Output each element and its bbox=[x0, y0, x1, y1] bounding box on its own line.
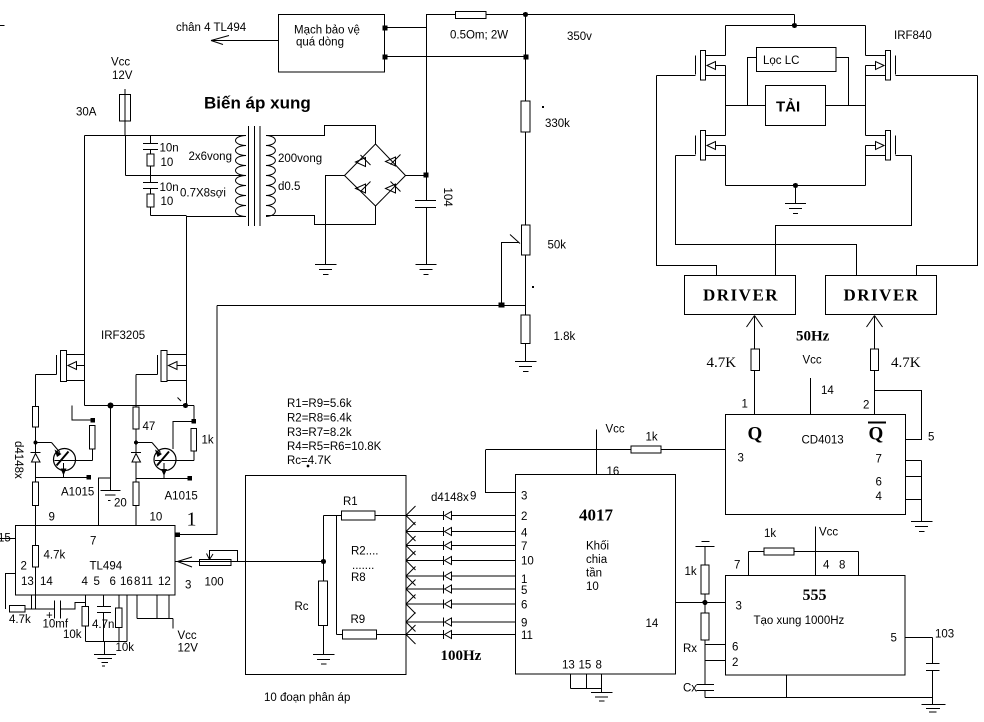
wire H-bridge top rail bbox=[726, 25, 866, 27]
resistor collector left bbox=[92, 449, 94, 461]
wire 555 bottom rail bbox=[705, 697, 933, 699]
wire down to 4017 pin3 bbox=[486, 450, 516, 493]
wire secondary bottom to bridge bbox=[266, 206, 376, 225]
wire bridge positive output bbox=[406, 175, 427, 177]
svg-text:50Hz: 50Hz bbox=[796, 329, 830, 345]
svg-text:15: 15 bbox=[579, 660, 592, 672]
transformer primary winding bbox=[236, 136, 247, 217]
svg-text:10n: 10n bbox=[160, 182, 179, 194]
wire TAI right lead bbox=[826, 105, 866, 107]
wire R1 left to bus bbox=[324, 515, 342, 517]
ground 4017 bbox=[591, 692, 613, 694]
svg-text:1: 1 bbox=[742, 399, 748, 411]
wire 10mf to pin4 node bbox=[61, 603, 86, 610]
svg-text:.......: ....... bbox=[352, 560, 374, 572]
svg-text:100: 100 bbox=[205, 577, 224, 589]
svg-text:TẢI: TẢI bbox=[776, 99, 800, 116]
svg-text:Vcc: Vcc bbox=[606, 424, 625, 436]
wire vertical from rail down to bridge + output bbox=[426, 15, 428, 176]
svg-text:6: 6 bbox=[876, 477, 882, 489]
wire TAI left lead bbox=[726, 105, 766, 107]
wire gate Q3 to right DRIVER bbox=[917, 76, 978, 276]
resistor 1k (clock link) bbox=[631, 446, 661, 453]
svg-text:1k: 1k bbox=[764, 528, 776, 540]
potentiometer 100 bbox=[200, 560, 232, 566]
stray dot near transformer bbox=[307, 465, 310, 468]
wire inner bus R1 to R9 bbox=[336, 516, 338, 635]
svg-text:4: 4 bbox=[823, 560, 830, 572]
resistor 4.7K left bbox=[751, 349, 760, 371]
svg-text:TL494: TL494 bbox=[90, 561, 123, 573]
svg-text:Tạo xung 1000Hz: Tạo xung 1000Hz bbox=[754, 615, 845, 627]
capacitor Cx bbox=[697, 684, 715, 686]
IC CD4013 bbox=[726, 415, 906, 515]
svg-text:R9: R9 bbox=[351, 614, 366, 626]
capacitor 103 bbox=[932, 638, 934, 664]
wire to TL494 pin9 bbox=[35, 506, 37, 526]
capacitor 10mf bbox=[54, 601, 56, 619]
diode d4148 right bbox=[131, 452, 141, 454]
box 10 doan phan ap bbox=[246, 476, 407, 675]
wire to TL494 pin10 bbox=[135, 506, 137, 526]
svg-text:Rc: Rc bbox=[295, 601, 309, 613]
svg-text:0.5Om; 2W: 0.5Om; 2W bbox=[450, 30, 508, 42]
resistor (left lower) bbox=[33, 482, 39, 506]
gate resistor chain left : wire bbox=[35, 375, 37, 407]
arrow into TL494 pin3 bbox=[178, 557, 193, 567]
wire pin13 stub bbox=[31, 595, 33, 609]
wire collector resistor to rail bbox=[72, 406, 91, 421]
IC 555 bbox=[726, 576, 906, 676]
svg-text:1k: 1k bbox=[202, 435, 214, 447]
wire pin5 stub bbox=[103, 595, 105, 607]
svg-text:2: 2 bbox=[21, 561, 27, 573]
svg-text:1k: 1k bbox=[685, 566, 697, 578]
svg-text:10k: 10k bbox=[116, 642, 135, 654]
ground Rc bbox=[313, 654, 335, 656]
svg-text:d4148x: d4148x bbox=[12, 441, 24, 479]
gate resistor chain right : wire bbox=[135, 375, 137, 408]
wire bridge negative to ground bbox=[326, 176, 345, 265]
wire rail to 1k top bbox=[193, 406, 195, 420]
stray dot bbox=[542, 106, 544, 108]
wire Rx to pin6/2 and Cx bbox=[704, 640, 706, 684]
diode d4148 row 6 (to 4017 pin 5) bbox=[406, 580, 516, 599]
diode D2 (top-right arm) bbox=[386, 157, 396, 166]
svg-text:0.7X8sợi: 0.7X8sợi bbox=[180, 188, 226, 200]
svg-text:Q: Q bbox=[748, 424, 763, 445]
resistor 10k (pin6) bbox=[116, 608, 123, 628]
svg-text:2: 2 bbox=[863, 400, 869, 412]
svg-text:6: 6 bbox=[110, 576, 116, 588]
svg-text:7: 7 bbox=[734, 560, 740, 572]
transistor A1015 right bbox=[136, 443, 194, 479]
svg-text:R2=R8=6.4k: R2=R8=6.4k bbox=[287, 413, 352, 425]
svg-text:2: 2 bbox=[732, 657, 738, 669]
wire bottom rail to ground bbox=[795, 186, 797, 204]
svg-text:8: 8 bbox=[596, 660, 602, 672]
svg-text:16: 16 bbox=[120, 576, 133, 588]
resistor 10 (upper snubber) bbox=[147, 154, 154, 166]
svg-text:Cx: Cx bbox=[683, 683, 697, 695]
IC 4017 bbox=[516, 475, 676, 675]
wire emitter bottom left bbox=[36, 477, 90, 479]
box TẢI bbox=[766, 86, 826, 126]
svg-text:10k: 10k bbox=[63, 629, 82, 641]
svg-text:10n: 10n bbox=[160, 143, 179, 155]
IC TL494 bbox=[16, 526, 176, 596]
svg-text:10: 10 bbox=[161, 157, 174, 169]
svg-text:1: 1 bbox=[187, 509, 197, 531]
svg-text:1k: 1k bbox=[646, 432, 658, 444]
mosfet Q3 IRF840 top-right bbox=[866, 26, 978, 81]
wire box output top to 350v rail bbox=[385, 27, 427, 29]
resistor 10 (lower snubber) bbox=[147, 194, 154, 207]
diode d4148 row 8 (to 4017 pin 9) bbox=[406, 613, 516, 632]
capacitor 10n (upper snubber) bbox=[150, 136, 152, 144]
svg-text:4017: 4017 bbox=[579, 506, 614, 525]
svg-text:5: 5 bbox=[521, 585, 527, 597]
svg-text:12: 12 bbox=[158, 576, 171, 588]
svg-text:4.7K: 4.7K bbox=[891, 355, 921, 371]
svg-text:104: 104 bbox=[441, 188, 453, 208]
wire left phase rail bbox=[725, 66, 727, 136]
svg-text:chia: chia bbox=[586, 554, 608, 566]
svg-text:quá dòng: quá dòng bbox=[296, 37, 344, 49]
resistor 1k collector right bbox=[193, 451, 195, 461]
svg-text:Lọc LC: Lọc LC bbox=[763, 55, 799, 67]
svg-text:Biến áp xung: Biến áp xung bbox=[204, 94, 311, 113]
wire R9 left bbox=[337, 634, 343, 636]
wire secondary top to bridge bbox=[266, 126, 376, 145]
svg-text:R1=R9=5.6k: R1=R9=5.6k bbox=[287, 398, 352, 410]
svg-text:4.7k: 4.7k bbox=[44, 550, 66, 562]
ground H-bridge bbox=[785, 203, 806, 205]
svg-text:13: 13 bbox=[562, 660, 575, 672]
wire Rc to ground bbox=[323, 626, 325, 655]
wire node to 555 pin3 bbox=[705, 602, 726, 604]
svg-text:IRF3205: IRF3205 bbox=[101, 330, 145, 342]
svg-text:Q: Q bbox=[869, 424, 884, 445]
svg-text:d4148x: d4148x bbox=[431, 492, 469, 504]
wire top rail left segment bbox=[426, 14, 455, 16]
wire CD4013 pin14 bbox=[810, 378, 812, 415]
wire 103 to ground bbox=[932, 671, 934, 705]
resistor 4.7k (bottom left) bbox=[10, 606, 26, 613]
stray tick top-left bbox=[0, 25, 5, 27]
svg-text:Vcc: Vcc bbox=[178, 630, 197, 642]
transformer secondary winding bbox=[266, 136, 275, 217]
ground 555/103 bbox=[922, 704, 946, 706]
svg-text:R4=R5=R6=10.8K: R4=R5=R6=10.8K bbox=[287, 441, 382, 453]
transistor A1015 left bbox=[36, 443, 93, 478]
wire pin4 stub bbox=[85, 595, 87, 607]
wire gate Q1 to left DRIVER bbox=[657, 76, 717, 276]
wire pin2 loop bbox=[6, 574, 16, 610]
wire Loc LC right lead bbox=[836, 58, 849, 106]
svg-text:103: 103 bbox=[935, 629, 954, 641]
wire 4.7K left to CD4013 pin1 bbox=[754, 371, 756, 415]
capacitor 10n (lower snubber) bbox=[150, 176, 152, 183]
svg-text:14: 14 bbox=[646, 618, 659, 630]
svg-text:3: 3 bbox=[185, 580, 191, 592]
mosfet Q5 IRF3205 left bbox=[36, 351, 85, 382]
svg-text:DRIVER: DRIVER bbox=[703, 286, 779, 305]
wire pin6 stub bbox=[118, 595, 120, 608]
wire CD4013 pin3 with 1k to 4017 pin3 bbox=[661, 449, 726, 451]
svg-text:R3=R7=8.2k: R3=R7=8.2k bbox=[287, 427, 352, 439]
wire 1k top to collector branch bbox=[173, 422, 192, 450]
diode d4148 left bbox=[31, 452, 41, 454]
svg-text:2x6vong: 2x6vong bbox=[189, 151, 232, 163]
svg-text:5: 5 bbox=[94, 576, 100, 588]
svg-text:12V: 12V bbox=[112, 70, 133, 82]
wire right phase rail bbox=[865, 66, 867, 136]
wire 1k to node bbox=[704, 594, 706, 613]
wire Loc LC left lead bbox=[748, 58, 757, 106]
stray dot bbox=[532, 286, 534, 288]
resistor 1k (to rail) bbox=[701, 565, 709, 594]
svg-text:A1015: A1015 bbox=[61, 487, 94, 499]
feedback wire to TL494 pin1 node bbox=[217, 305, 526, 307]
svg-text:10 đoạn phân áp: 10 đoạn phân áp bbox=[264, 692, 350, 704]
svg-text:tần: tần bbox=[586, 568, 602, 580]
svg-text:d0.5: d0.5 bbox=[278, 181, 300, 193]
resistor R9 bbox=[343, 630, 377, 639]
stray tick bbox=[178, 398, 182, 402]
junction dot bridge output bbox=[424, 173, 429, 178]
resistor 1k (555 charge) bbox=[749, 551, 765, 553]
wire primary centre tap bbox=[125, 136, 127, 176]
svg-text:10: 10 bbox=[161, 196, 174, 208]
resistor 10k (pin4) bbox=[82, 607, 89, 627]
rail symbol above 1k bbox=[696, 546, 715, 548]
svg-text:10: 10 bbox=[150, 512, 163, 524]
junction dot on rail bbox=[523, 12, 528, 17]
svg-text:100Hz: 100Hz bbox=[441, 648, 482, 664]
svg-text:7: 7 bbox=[876, 454, 882, 466]
wire 350v divider vertical upper bbox=[525, 15, 527, 102]
mosfet Q4 IRF840 bottom-right bbox=[866, 131, 912, 161]
ground 20 bbox=[101, 490, 121, 492]
wire top rail right segment to H-bridge bbox=[486, 14, 795, 16]
svg-text:11: 11 bbox=[521, 630, 533, 642]
diode d4148 row 3 (to 4017 pin 7) bbox=[406, 536, 516, 555]
wire primary bottom bbox=[151, 215, 187, 217]
svg-text:14: 14 bbox=[40, 576, 53, 588]
wire rail to signal ground bbox=[110, 406, 112, 491]
arrow into right DRIVER bbox=[867, 316, 883, 328]
svg-text:10: 10 bbox=[521, 556, 534, 568]
wire pins 8 11 12 to Vcc bbox=[136, 595, 138, 619]
ground under 1.8k bbox=[515, 361, 537, 363]
svg-text:DRIVER: DRIVER bbox=[844, 286, 920, 305]
svg-text:11: 11 bbox=[141, 576, 153, 588]
box DRIVER left bbox=[685, 276, 796, 315]
junction dot 4017 pin14 node bbox=[702, 600, 707, 605]
wire 4017 bottom pins to ground bbox=[570, 674, 572, 689]
svg-text:9: 9 bbox=[470, 491, 476, 503]
svg-text:R1: R1 bbox=[343, 496, 358, 508]
pot 100 wiper arm bbox=[210, 551, 238, 562]
wire box output bottom to divider rail bbox=[385, 56, 527, 58]
box Lọc LC bbox=[757, 48, 837, 72]
wire pins 7-6-4 chain to ground bbox=[921, 461, 923, 522]
wire primary top down to left IRF3205 drain bbox=[84, 136, 86, 406]
wire TL494 pin7 to ground rail bbox=[99, 478, 111, 526]
wire 4017 pin14 output bbox=[676, 602, 706, 604]
wire pin1 stub to feedback bbox=[176, 533, 181, 538]
svg-text:4: 4 bbox=[876, 491, 883, 503]
wire H-bridge bottom rail bbox=[726, 185, 866, 187]
ground under 104 bbox=[416, 264, 437, 266]
svg-text:4: 4 bbox=[82, 576, 89, 588]
svg-text:chân 4 TL494: chân 4 TL494 bbox=[176, 22, 247, 34]
resistor (left gate) bbox=[33, 407, 39, 428]
capacitor 4.7n bbox=[97, 606, 111, 608]
svg-text:20: 20 bbox=[114, 498, 127, 510]
wire right low-side source to bottom rail bbox=[865, 146, 867, 186]
wire 4.7K right to CD4013 pin2 bbox=[874, 371, 876, 415]
pin 6 stub bbox=[906, 476, 922, 478]
wire divider left bus (to Rc) bbox=[323, 516, 325, 582]
resistor 4.7k (inside, pin9 chain) bbox=[35, 526, 37, 546]
svg-text:30A: 30A bbox=[76, 107, 97, 119]
box DRIVER right bbox=[826, 276, 937, 315]
wire 555 ground stub bbox=[786, 675, 788, 698]
svg-text:47: 47 bbox=[143, 421, 156, 433]
resistor 330k bbox=[521, 101, 530, 132]
svg-text:Vcc: Vcc bbox=[819, 527, 838, 539]
svg-text:50k: 50k bbox=[548, 240, 567, 252]
svg-text:10: 10 bbox=[586, 581, 599, 593]
wire gate Q2 to right DRIVER bbox=[676, 156, 857, 276]
wire source rail bbox=[85, 405, 195, 407]
svg-text:1.8k: 1.8k bbox=[554, 331, 576, 343]
svg-text:6: 6 bbox=[732, 642, 738, 654]
resistor 0.5Om 2W bbox=[456, 12, 487, 19]
transformer core bbox=[248, 126, 250, 226]
wiper arrow of 50k bbox=[501, 235, 520, 244]
arrow into left DRIVER bbox=[747, 316, 763, 328]
wire left low-side source to bottom rail bbox=[725, 146, 727, 186]
svg-text:8: 8 bbox=[134, 576, 140, 588]
diode D1 (top-left arm) bbox=[356, 158, 366, 167]
svg-text:Vcc: Vcc bbox=[111, 57, 130, 69]
svg-text:3: 3 bbox=[521, 491, 527, 503]
wire emitter bottom right bbox=[136, 478, 190, 480]
svg-text:9: 9 bbox=[49, 512, 55, 524]
wire arrow to chân 4 TL494 bbox=[211, 36, 278, 45]
resistor Rc bbox=[319, 581, 328, 626]
wire 330k to 50k bbox=[525, 132, 527, 225]
ground CD4013 bbox=[911, 521, 933, 523]
node dot right bbox=[134, 441, 138, 445]
svg-text:5: 5 bbox=[928, 432, 934, 444]
svg-text:R8: R8 bbox=[351, 572, 366, 584]
svg-text:330k: 330k bbox=[545, 118, 570, 130]
pin 7 stub bbox=[906, 460, 922, 462]
svg-text:IRF840: IRF840 bbox=[894, 30, 932, 42]
svg-text:6: 6 bbox=[521, 600, 527, 612]
diode d4148 row 7 (to 4017 pin 6) bbox=[406, 595, 516, 614]
wire pin2 to pin5 link bbox=[875, 391, 922, 440]
box Mạch bảo vệ quá dòng bbox=[279, 15, 385, 73]
potentiometer 50k bbox=[522, 225, 531, 255]
resistor (right lower) bbox=[133, 482, 139, 506]
svg-text:3: 3 bbox=[738, 453, 744, 465]
svg-text:A1015: A1015 bbox=[165, 491, 198, 503]
wire 50k to 1.8k bbox=[525, 255, 527, 315]
wire wiper down to feedback line bbox=[501, 243, 503, 306]
wire pin16 stub bbox=[126, 595, 128, 642]
svg-text:7: 7 bbox=[90, 536, 96, 548]
svg-text:5: 5 bbox=[891, 633, 897, 645]
wire primary bottom down to right IRF3205 drain bbox=[186, 216, 188, 406]
wire ground bus bbox=[86, 641, 128, 643]
svg-text:8: 8 bbox=[839, 560, 845, 572]
ground bridge negative bbox=[315, 264, 337, 266]
resistor 1.8k bbox=[521, 315, 530, 344]
svg-text:7: 7 bbox=[521, 541, 527, 553]
svg-text:16: 16 bbox=[607, 466, 620, 478]
wire to 10mf bbox=[25, 608, 55, 610]
wire 555 pin2 stub bbox=[705, 660, 726, 662]
svg-text:Rx: Rx bbox=[683, 643, 697, 655]
svg-text:3: 3 bbox=[736, 601, 742, 613]
mosfet Q1 IRF840 top-left bbox=[657, 26, 726, 81]
bridge rectifier diamond bbox=[345, 144, 406, 206]
svg-text:9: 9 bbox=[521, 618, 527, 630]
diode D4 (bottom-right arm) bbox=[386, 184, 396, 193]
resistor Rx bbox=[701, 613, 709, 640]
diode D3 (bottom-left arm) bbox=[356, 184, 366, 193]
diode d4148 row 1 (to 4017 pin 2) bbox=[376, 506, 516, 525]
wire Vcc to 4017 pin16 bbox=[596, 430, 598, 475]
svg-text:200vong: 200vong bbox=[278, 153, 322, 165]
wire pin15 stub bbox=[0, 538, 16, 540]
junction dot Rc node bbox=[321, 559, 326, 564]
svg-text:4.7K: 4.7K bbox=[707, 355, 737, 371]
svg-text:R2....: R2.... bbox=[351, 546, 378, 558]
wire 555 pin6 stub bbox=[705, 644, 726, 646]
svg-text:4.7k: 4.7k bbox=[9, 614, 31, 626]
svg-text:2: 2 bbox=[521, 511, 527, 523]
svg-text:Khối: Khối bbox=[586, 541, 609, 553]
mosfet Q6 IRF3205 right bbox=[136, 351, 187, 382]
svg-text:14: 14 bbox=[821, 385, 834, 397]
wire 555 pin7 bbox=[748, 552, 750, 576]
wire Cx to bottom rail bbox=[704, 691, 706, 698]
resistor 4.7K right bbox=[871, 349, 879, 371]
svg-text:350v: 350v bbox=[567, 31, 592, 43]
svg-text:12V: 12V bbox=[178, 643, 199, 655]
svg-text:Rc=4.7K: Rc=4.7K bbox=[287, 455, 332, 467]
svg-text:Mạch bảo vệ: Mạch bảo vệ bbox=[294, 25, 360, 37]
wire 1.8k to ground bbox=[525, 344, 527, 362]
pin 4 stub bbox=[906, 499, 922, 501]
svg-text:CD4013: CD4013 bbox=[802, 435, 844, 447]
resistor R1 bbox=[342, 511, 376, 520]
diode d4148 row 9 (to 4017 pin 11) bbox=[377, 625, 516, 644]
resistor 47 bbox=[133, 407, 139, 429]
wire gate Q4 to left DRIVER bbox=[776, 156, 912, 276]
wire primary top bbox=[85, 135, 247, 137]
ground TL494 bus bbox=[94, 654, 116, 656]
capacitor 104 bbox=[426, 176, 428, 201]
diode d4148 row 2 (to 4017 pin 4) bbox=[406, 522, 516, 541]
wire TL494 pin3 to Rc node (through pot 100) bbox=[176, 561, 324, 563]
